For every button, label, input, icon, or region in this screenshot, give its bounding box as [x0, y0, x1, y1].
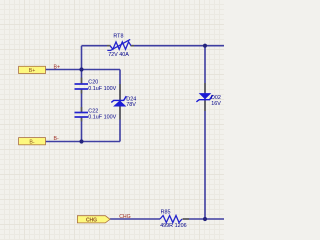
svg-text:R85: R85 — [161, 210, 171, 216]
svg-text:0.1uF 100V: 0.1uF 100V — [88, 86, 116, 92]
port CHG (arrow right) — [77, 216, 110, 224]
svg-text:RT8: RT8 — [113, 34, 123, 40]
svg-text:C22: C22 — [88, 108, 98, 114]
svg-text:72V 40A: 72V 40A — [108, 52, 129, 58]
capacitor C20 — [75, 84, 89, 89]
wire: top horizontal y=45.7 from corner through RT8 to right edge — [82, 45, 225, 47]
resistor R85 — [160, 216, 182, 223]
pin C22 bottom — [81, 118, 83, 122]
pin C22 top — [81, 107, 83, 112]
port B+ — [19, 66, 46, 74]
wire: left vertical bus x=81.5 (top corner to B- wire, interrupted by caps) — [81, 46, 83, 142]
pin D24 top — [119, 84, 121, 100]
svg-text:499R 1206: 499R 1206 — [160, 223, 186, 229]
TVS diode D02 (pointing down, zener bar below) — [196, 93, 212, 102]
wire: CHG horizontal wire — [110, 218, 224, 220]
pin D02 bottom — [204, 101, 206, 112]
wire: B+ horizontal wire — [46, 69, 121, 71]
port B- — [19, 138, 46, 146]
svg-text:B-: B- — [29, 139, 34, 145]
svg-text:B-: B- — [54, 136, 59, 142]
junction dot top right — [203, 44, 207, 48]
svg-text:C20: C20 — [88, 80, 98, 86]
pin C20 bottom — [81, 90, 83, 94]
junction dot at B- — [79, 139, 83, 143]
svg-text:B+: B+ — [54, 64, 61, 70]
sheet background with grid — [0, 0, 224, 240]
junction dot bottom right — [203, 217, 207, 221]
pin RT8 right — [131, 45, 135, 47]
svg-text:B+: B+ — [29, 68, 36, 74]
wire: D02 branch vertical x=205 — [204, 46, 206, 219]
pin D02 top — [204, 83, 206, 93]
TVS diode D24 (pointing up, zener bar on top) — [111, 96, 126, 106]
pin D24 bottom — [119, 107, 121, 120]
capacitor C22 — [75, 113, 89, 118]
wire: B- horizontal wire — [46, 141, 121, 143]
svg-text:78V: 78V — [126, 102, 136, 108]
wire: D24 branch vertical x=120 — [119, 70, 121, 142]
svg-text:0.1uF 100V: 0.1uF 100V — [88, 115, 116, 121]
svg-text:16V: 16V — [211, 101, 221, 107]
pin R85 right — [183, 218, 190, 220]
svg-text:CHG: CHG — [86, 217, 97, 223]
thermistor RT8 — [107, 39, 131, 50]
pin gray segments — [82, 46, 206, 219]
pin C20 top — [81, 78, 83, 84]
pin RT8 left — [107, 45, 111, 47]
svg-text:CHG: CHG — [119, 214, 131, 220]
junction dot at B+ — [79, 67, 83, 71]
